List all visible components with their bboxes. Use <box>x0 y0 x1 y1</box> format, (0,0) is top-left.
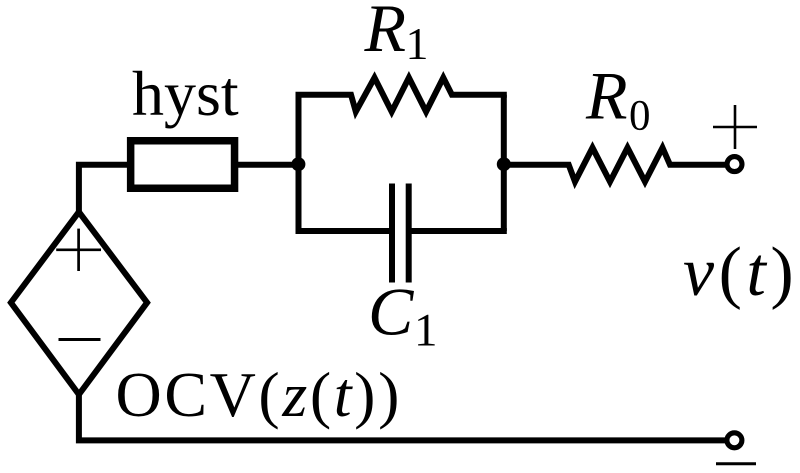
svg-text:1: 1 <box>414 305 438 357</box>
svg-text:C: C <box>368 274 414 350</box>
svg-text:OCV(z(t)): OCV(z(t)) <box>116 359 403 430</box>
svg-text:R: R <box>585 58 628 134</box>
svg-text:R: R <box>364 0 407 66</box>
svg-text:v(t): v(t) <box>683 234 798 311</box>
svg-text:0: 0 <box>629 93 651 140</box>
svg-text:hyst: hyst <box>132 58 239 129</box>
svg-text:1: 1 <box>406 18 429 69</box>
